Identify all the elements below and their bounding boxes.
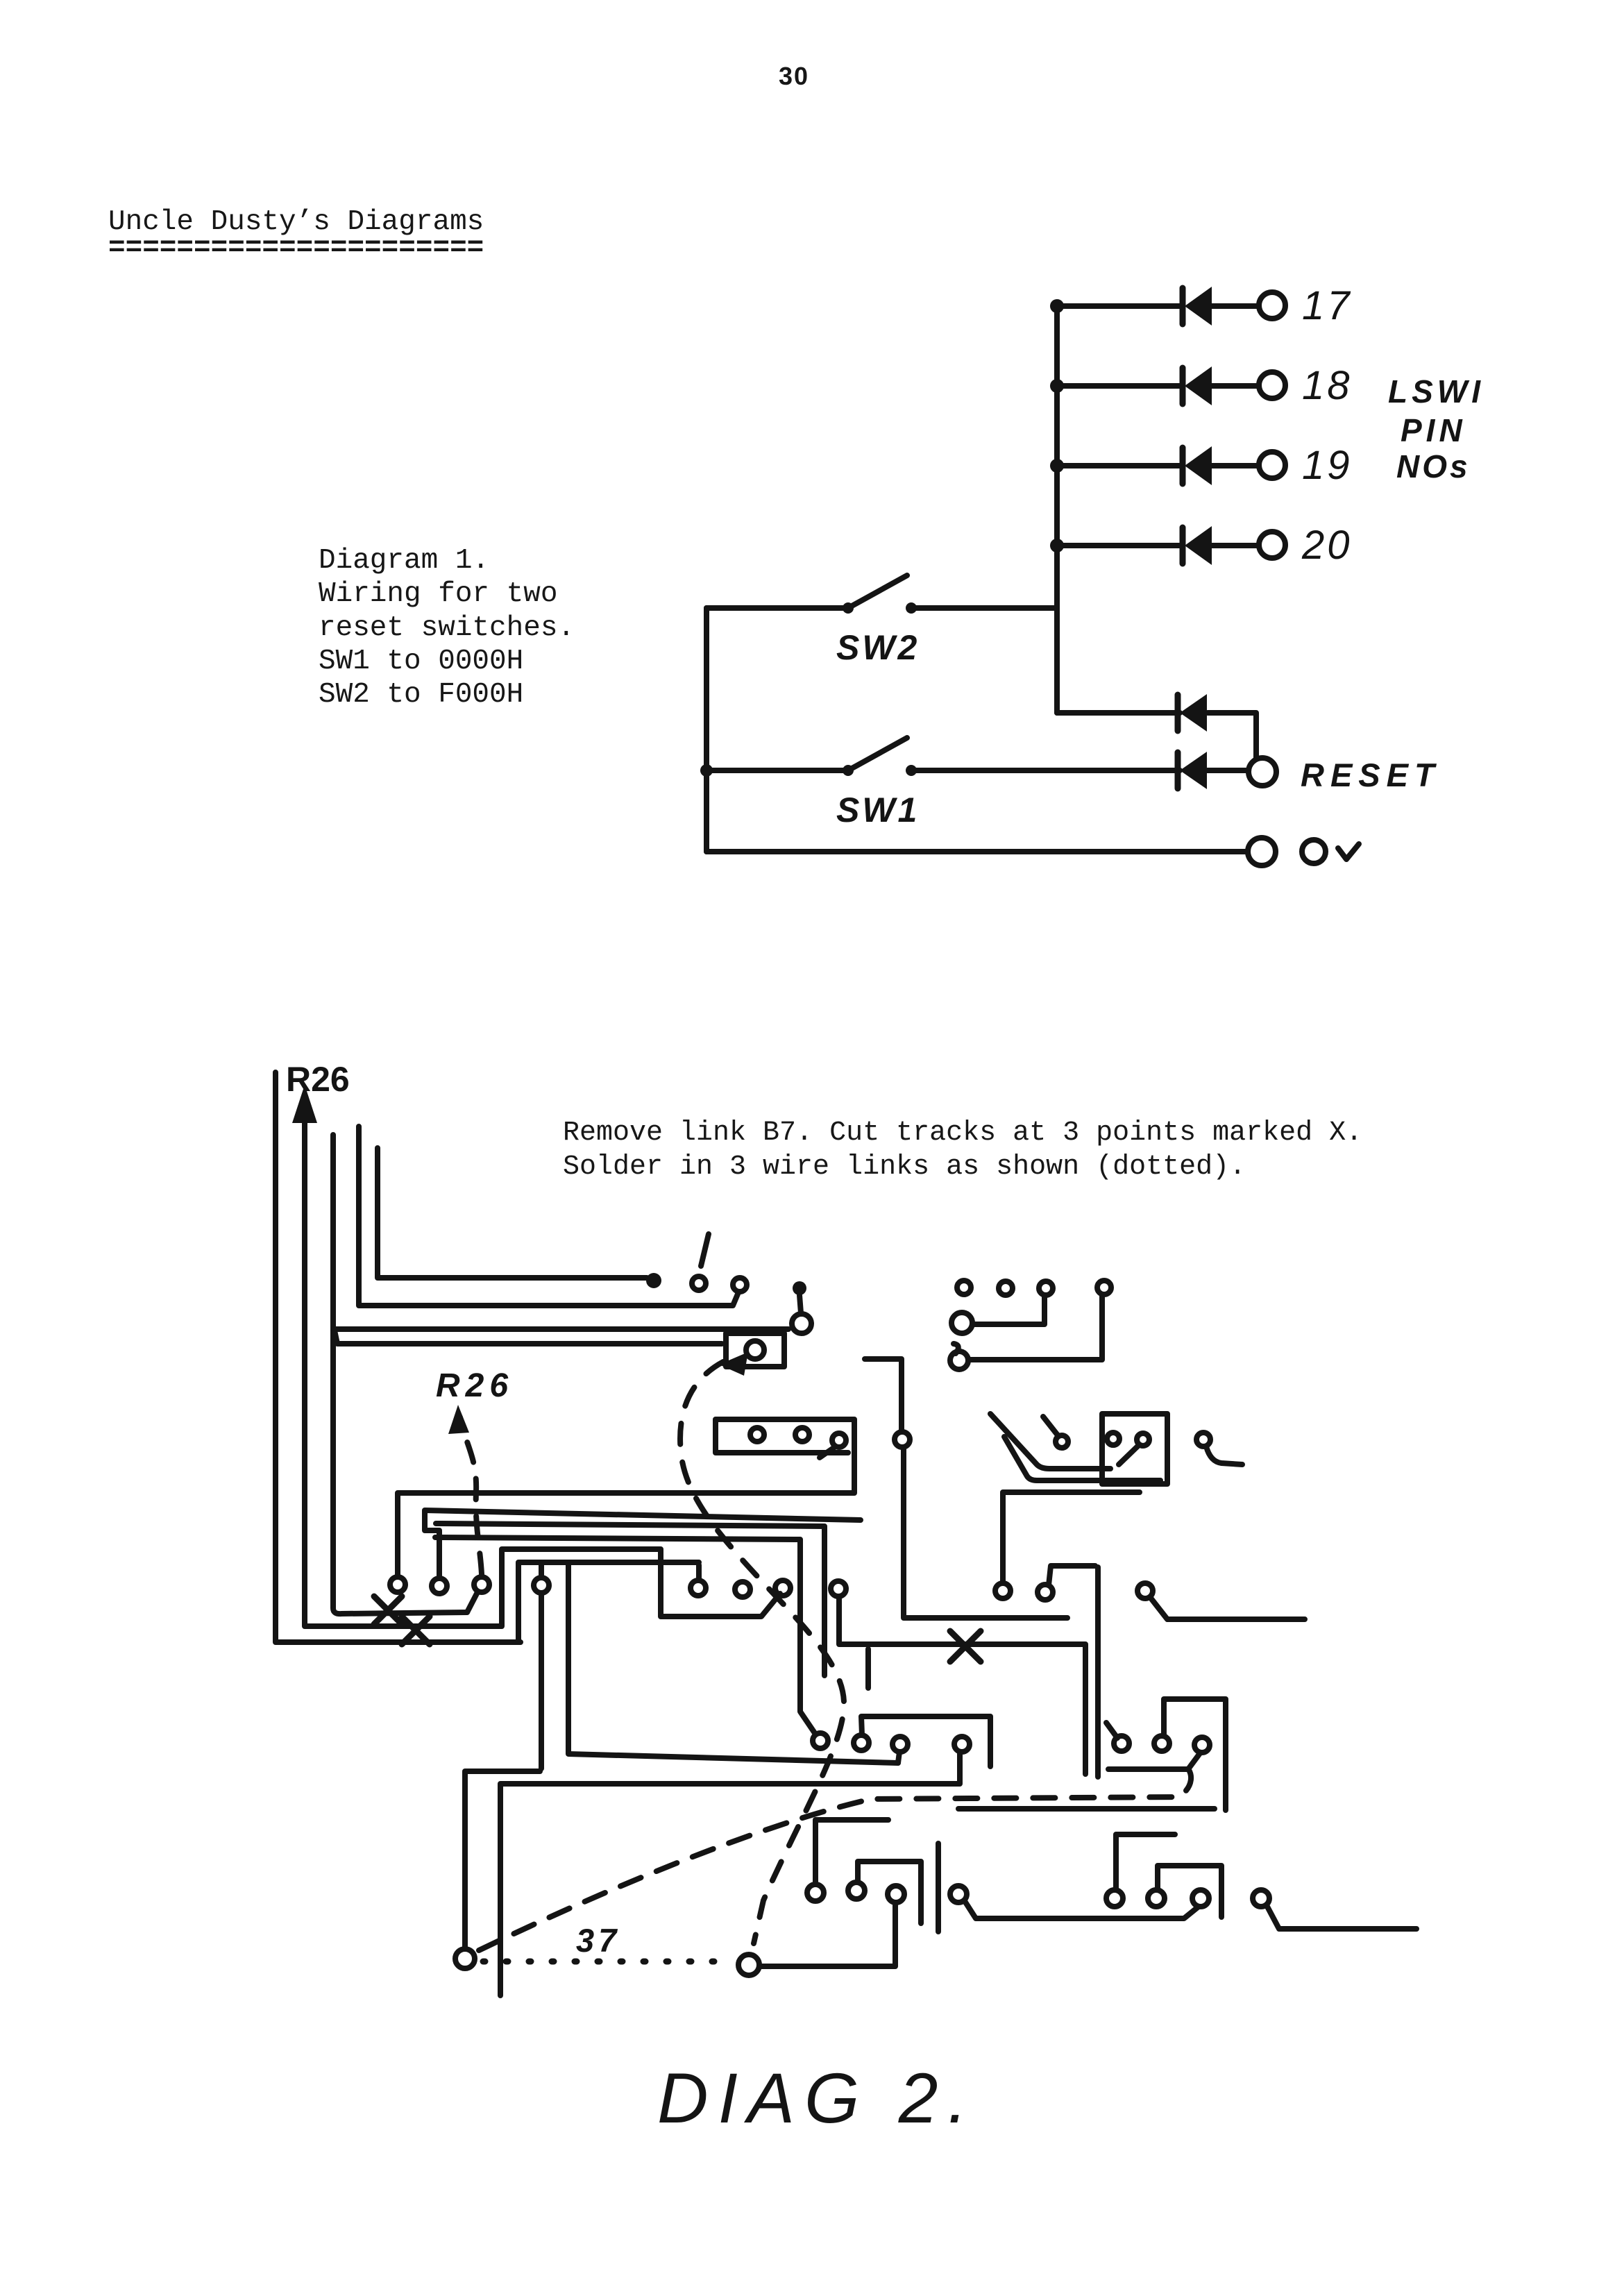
box around pad B7 — [726, 1333, 784, 1367]
track X3 branch — [839, 1597, 1085, 1774]
track bottom mid box — [858, 1862, 921, 1923]
diode D5 — [1175, 695, 1181, 731]
pad with hook right of box — [1196, 1433, 1210, 1446]
junction dot row 18 — [1050, 379, 1064, 393]
track V2 long rail down to cut zone — [333, 1135, 467, 1614]
pad link37 left — [455, 1949, 475, 1968]
junction dot row 19 — [1050, 459, 1064, 473]
svg-text:37: 37 — [576, 1922, 620, 1959]
terminal pin 19 — [1259, 452, 1285, 478]
svg-text:R26: R26 — [286, 1060, 350, 1099]
wire D6 to RESET — [1207, 768, 1247, 773]
svg-text:18: 18 — [1302, 363, 1353, 408]
diode D1 — [1180, 288, 1186, 324]
pad in left bottom box — [854, 1735, 869, 1750]
track bottom right a — [1116, 1834, 1175, 1890]
wire left vertical — [704, 608, 709, 852]
svg-text:SW2: SW2 — [836, 628, 920, 667]
track mid cluster b — [1049, 1566, 1095, 1585]
pad end of L4 — [813, 1733, 828, 1748]
pad in box B 1 — [1107, 1433, 1119, 1445]
track P2 diagonal to rail — [467, 1592, 477, 1612]
svg-text:SW1 to 0000H: SW1 to 0000H — [319, 645, 523, 677]
track H2 branch — [333, 1326, 788, 1332]
bottom right cluster pads — [1106, 1890, 1123, 1907]
wire SW1 row — [707, 768, 1180, 773]
stub over room pad — [865, 1359, 902, 1430]
tick mark pair — [936, 1843, 941, 1932]
solder dot end of V3 rail — [646, 1273, 661, 1288]
underline stub below box B — [1106, 1489, 1140, 1495]
via dot above pad — [793, 1281, 806, 1295]
pad in G-box 2 — [795, 1428, 809, 1442]
terminal pin 17 — [1259, 292, 1285, 319]
track L1 top bus with G-box end — [398, 1419, 854, 1577]
top right pad row — [957, 1281, 971, 1294]
arrowhead link2 — [719, 1352, 748, 1376]
track L3 bus — [436, 1523, 824, 1675]
pad fed by Hx — [893, 1737, 908, 1752]
cut mark X3 — [950, 1631, 981, 1662]
terminal pin 18 — [1259, 372, 1285, 398]
svg-text:SW2 to F000H: SW2 to F000H — [319, 679, 523, 711]
wire row 19 — [1057, 463, 1258, 469]
svg-text:SW1: SW1 — [836, 791, 920, 829]
diode D6 — [1175, 752, 1181, 788]
track V1 rail — [359, 1126, 738, 1306]
lever stub over pad — [701, 1234, 709, 1266]
track bottom mid a — [815, 1820, 888, 1884]
track to R26 with arrow — [305, 1114, 780, 1626]
svg-text:30: 30 — [779, 62, 809, 90]
junction dot SW1 tap — [700, 764, 713, 777]
diode D3 — [1180, 448, 1186, 484]
wire bus corner to diode D5 — [1057, 713, 1256, 758]
wire row 18 — [1057, 383, 1258, 389]
pad mid cluster a — [995, 1583, 1010, 1598]
track L2 bus — [425, 1510, 861, 1578]
track V3 rail — [378, 1148, 647, 1278]
track to boxed pad — [335, 1331, 722, 1344]
diode D4 — [1180, 527, 1186, 564]
junction dot row 17 — [1050, 299, 1064, 313]
pad room top — [895, 1432, 910, 1447]
pad hook mid right — [1137, 1583, 1153, 1598]
track pi structure — [518, 1562, 898, 1763]
pad end of V1 rail — [733, 1278, 747, 1292]
svg-text:19: 19 — [1302, 443, 1353, 488]
svg-text:RESET: RESET — [1301, 757, 1441, 793]
svg-text:reset switches.: reset switches. — [319, 612, 575, 644]
switch SW1 — [843, 765, 854, 776]
terminal RESET — [1249, 758, 1276, 786]
terminal 0v — [1248, 838, 1276, 866]
track long vertical right — [1095, 1567, 1101, 1777]
svg-text:LSWI: LSWI — [1388, 373, 1485, 410]
pad above X3 branch — [831, 1581, 846, 1596]
junction dot row 20 — [1050, 539, 1064, 552]
track bottom right box — [1158, 1866, 1221, 1917]
track hook to rail — [1150, 1597, 1305, 1619]
svg-text:NOs: NOs — [1396, 448, 1471, 484]
pad feeding row pin4 — [950, 1351, 968, 1369]
track P3 stem — [539, 1564, 544, 1769]
dotted link 37 — [483, 1959, 731, 1965]
track pad37 up — [465, 1771, 540, 1948]
truncated diagonal track 2 — [1004, 1437, 1160, 1480]
stub below X3 branch — [865, 1649, 871, 1688]
pad P1 — [432, 1578, 447, 1594]
wire row 17 — [1057, 303, 1258, 309]
pad end of V2 rail — [792, 1314, 811, 1333]
track room outline — [904, 1448, 1067, 1618]
svg-text:Solder in 3 wire links as show: Solder in 3 wire links as shown (dotted)… — [563, 1151, 1246, 1183]
svg-text:17: 17 — [1302, 283, 1353, 328]
wire link 3 dashed diagonal — [479, 1770, 1191, 1950]
track bottom right hook — [1267, 1905, 1416, 1929]
cut mark X2 — [402, 1617, 430, 1644]
pad P0 — [390, 1577, 405, 1592]
pad P2 — [474, 1577, 489, 1592]
pad between diagonals — [1056, 1435, 1068, 1448]
svg-text:Diagram 1.: Diagram 1. — [319, 545, 489, 577]
svg-text:PIN: PIN — [1401, 412, 1466, 448]
pad feeding row pin3 — [951, 1312, 972, 1333]
mid box cluster pads — [1114, 1736, 1129, 1751]
wire link 2 dashed long arc — [680, 1362, 844, 1943]
svg-text:R26: R26 — [436, 1367, 514, 1404]
svg-text:Remove link B7. Cut tracks at: Remove link B7. Cut tracks at 3 points m… — [563, 1117, 1362, 1149]
arrowhead R26 — [292, 1085, 317, 1123]
pad P3 — [534, 1578, 549, 1593]
terminal pin 20 — [1259, 532, 1285, 558]
track from pad37 right — [759, 1903, 895, 1966]
pad in G-box 1 — [750, 1428, 764, 1442]
solid rail under mid box — [958, 1806, 1215, 1812]
svg-text:20: 20 — [1301, 523, 1353, 568]
svg-text:DIAG 2.: DIAG 2. — [657, 2059, 977, 2138]
switch SW2 — [843, 602, 854, 614]
hook on mid box pad — [1106, 1723, 1117, 1738]
wire link 1 dashed to R26 — [460, 1417, 482, 1574]
svg-text:======================: ====================== — [108, 233, 484, 264]
box B outline — [1102, 1414, 1167, 1484]
wire 0v row — [707, 849, 1246, 854]
track mid cluster a — [1003, 1492, 1135, 1583]
node bus vertical — [1054, 306, 1060, 713]
curl flourish on lower feed pad — [954, 1344, 958, 1353]
pad mid floating — [735, 1582, 750, 1597]
track long low rail — [500, 1753, 960, 1995]
track R26 outer rail — [276, 1072, 521, 1642]
track L4 bus — [435, 1537, 815, 1733]
pad under pi right — [691, 1580, 706, 1596]
wire row 20 — [1057, 543, 1258, 548]
mid box outline — [1164, 1699, 1226, 1810]
pad link37 right — [738, 1955, 759, 1975]
diode D2 — [1180, 368, 1186, 404]
box left bottom — [861, 1716, 990, 1766]
diag stub in mid box — [1108, 1753, 1200, 1769]
pad in G-box 3 — [832, 1433, 846, 1447]
cut mark X1 — [374, 1596, 402, 1624]
pad mid cluster b — [1038, 1585, 1053, 1600]
stub in box B — [1119, 1445, 1139, 1464]
arrowhead link1 — [448, 1405, 469, 1434]
track bottom long to right cluster — [965, 1901, 1199, 1918]
wire SW2 row — [707, 605, 1057, 611]
pad in box B 2 — [1137, 1433, 1149, 1446]
truncated diagonal track 1 — [990, 1414, 1110, 1469]
label Ov — [1302, 840, 1326, 863]
tail of G-box pad 3 — [820, 1446, 836, 1458]
pad fed by low rail — [954, 1737, 970, 1752]
bottom mid cluster pads — [807, 1884, 824, 1901]
pad B7 — [746, 1341, 764, 1359]
svg-text:Wiring for two: Wiring for two — [319, 578, 557, 610]
pad dest of C track — [775, 1580, 790, 1596]
